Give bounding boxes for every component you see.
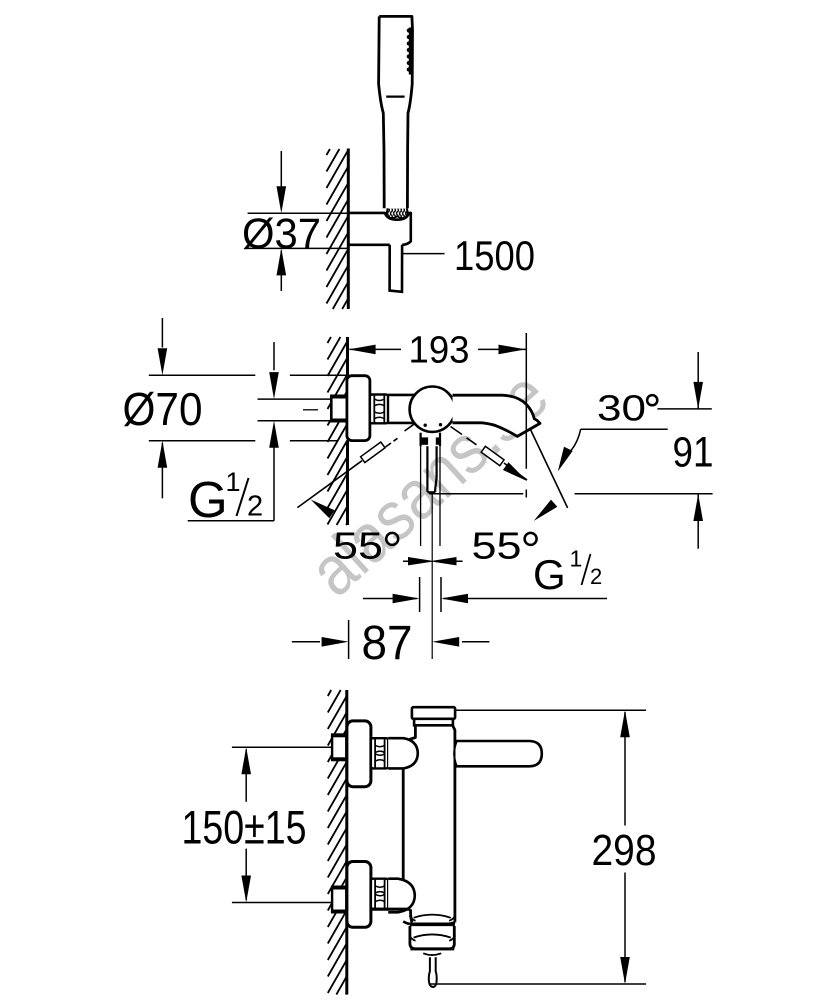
- svg-text:298: 298: [592, 826, 657, 875]
- drip: [429, 957, 437, 987]
- handle stem (front view): [421, 433, 441, 493]
- 30° leader arc and arrowhead: [571, 429, 581, 450]
- shower bracket: [348, 213, 411, 245]
- svg-text:2: 2: [247, 491, 263, 523]
- top cap: [412, 707, 455, 725]
- dimension Ø70: [149, 318, 346, 498]
- dimension 150±15: [232, 747, 332, 902]
- escutcheon (front view): [347, 376, 370, 441]
- svg-text:1: 1: [570, 545, 583, 571]
- bottom outlet: [372, 909, 456, 955]
- dimension Ø37: [248, 151, 349, 291]
- wall (bottom section): [328, 690, 347, 995]
- spray nozzle strip: [409, 28, 413, 75]
- G 1/2 right leader and label: [363, 577, 607, 612]
- svg-text:G: G: [533, 551, 566, 598]
- pivot dots: [424, 423, 443, 427]
- centerline below handle: [431, 494, 433, 660]
- union nuts (side view): [371, 738, 388, 768]
- svg-text:91: 91: [673, 429, 714, 477]
- horizontal reference line (91 bottom / 55° base): [429, 493, 713, 495]
- G 1/2 left dimension: [188, 342, 274, 521]
- watermark: [294, 356, 562, 610]
- label 30°: [597, 387, 646, 428]
- svg-text:193: 193: [409, 329, 470, 371]
- svg-text:Ø70: Ø70: [123, 383, 203, 435]
- svg-text:30: 30: [597, 387, 646, 428]
- svg-text:Ø37: Ø37: [242, 210, 321, 258]
- union nut (front view): [370, 395, 388, 424]
- faucet body (side view): [403, 726, 455, 922]
- leader line 1500: [402, 253, 444, 255]
- arrowhead on left 55° line: [311, 500, 335, 519]
- hand shower head and handle: [379, 16, 413, 208]
- svg-text:55: 55: [472, 526, 522, 568]
- 55° convergence arrows at centerline: [403, 560, 463, 562]
- stem guide lines: [421, 446, 440, 546]
- arrowhead on right jet line: [503, 462, 527, 481]
- arrowhead at spout jet vertex: [534, 500, 558, 521]
- label 1500: [454, 232, 535, 279]
- label Ø37: [242, 210, 321, 258]
- inlet squares (side view, in wall): [331, 735, 346, 760]
- label G 1/2 (left): [188, 467, 241, 528]
- dimension 298: [430, 710, 647, 984]
- label 55° left: [333, 526, 383, 568]
- spout: [453, 395, 541, 436]
- svg-text:55: 55: [333, 526, 383, 568]
- svg-text:G: G: [188, 471, 228, 528]
- inlet square block (in wall): [330, 396, 347, 420]
- water jet line from spout (30°): [530, 429, 568, 508]
- supply pipe lines (left, G1/2 inlet): [258, 399, 480, 421]
- spray jet line right (55°): [451, 427, 528, 481]
- label 55° right: [472, 526, 522, 568]
- handle bar (side view): [454, 741, 542, 766]
- shower head joint line: [386, 95, 404, 97]
- vertical extension line at spout tip (193 right / 30° ref): [525, 333, 527, 498]
- dimension 87: [292, 620, 490, 659]
- wall (middle section): [328, 337, 348, 525]
- dimension 91: [657, 352, 711, 549]
- spray jet line left (55°): [297, 424, 414, 508]
- connector nut (crosshatched): [385, 207, 412, 220]
- svg-text:1: 1: [226, 467, 241, 497]
- escutcheons (side view): [347, 721, 371, 927]
- connection lobes: [388, 738, 418, 912]
- svg-text:1500: 1500: [454, 232, 535, 279]
- svg-text:2: 2: [590, 564, 602, 589]
- wall (top section): [327, 149, 349, 310]
- svg-text:87: 87: [362, 617, 413, 670]
- 30° underline: [581, 428, 668, 430]
- body tube to cartridge: [388, 395, 414, 423]
- shower hose: [390, 245, 403, 292]
- dimension 193: [350, 348, 526, 350]
- cartridge circle: [410, 387, 455, 432]
- svg-text:150±15: 150±15: [182, 800, 307, 853]
